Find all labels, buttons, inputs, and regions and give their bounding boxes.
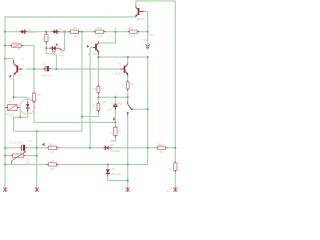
svg-text:1N4148: 1N4148 bbox=[59, 31, 69, 35]
resistor R3 bbox=[46, 142, 58, 154]
wire x=90.1 down bbox=[89, 48, 91, 148]
svg-text:1: 1 bbox=[116, 92, 118, 96]
svg-text:HKA-C2: HKA-C2 bbox=[5, 112, 15, 116]
wire LDR row y=45.6 bbox=[5, 45, 10, 47]
transistor T1 bbox=[5, 58, 25, 78]
junction at (175.3,147.8) bbox=[174, 147, 176, 149]
wire top right y=0.9 bbox=[136, 1, 175, 6]
wire x=147.7 mid bbox=[5, 57, 148, 164]
wire diode bottom x=27.7 bbox=[27, 112, 29, 118]
diode D1 bbox=[20, 30, 28, 34]
wire D2 bottom corner y=180.6 bbox=[108, 176, 128, 181]
svg-text:2: 2 bbox=[31, 189, 33, 193]
svg-text:1N4148: 1N4148 bbox=[111, 149, 121, 153]
svg-text:R4: R4 bbox=[101, 86, 105, 90]
resistor R10 bbox=[94, 26, 106, 38]
svg-text:C1: C1 bbox=[42, 62, 46, 66]
svg-text:1: 1 bbox=[143, 6, 145, 10]
junction at (56.4,69) bbox=[55, 68, 57, 70]
capacitor C2 (polarized, vertical) bbox=[107, 92, 122, 111]
wire LED left feed bbox=[46, 47, 49, 49]
junction at (36.7,155.6) bbox=[36, 155, 38, 157]
wire riser x=90.1 bbox=[90, 47, 93, 49]
svg-text:R1: R1 bbox=[74, 34, 78, 38]
wire supply row y=147.8 bbox=[5, 147, 20, 149]
resistor R2 bbox=[156, 142, 168, 154]
relay lamp circle bbox=[20, 99, 35, 114]
junction at (115.4,97.2) bbox=[114, 96, 116, 98]
svg-text:R6: R6 bbox=[103, 100, 107, 104]
LED red dot bbox=[56, 44, 58, 46]
wire y=57.1 bbox=[98, 56, 147, 58]
svg-text:R8: R8 bbox=[130, 82, 134, 86]
svg-text:1,8kΩ: 1,8kΩ bbox=[95, 26, 102, 30]
resistor R8 (on T2 emitter line) bbox=[121, 80, 134, 90]
junction at (82,31.7) bbox=[81, 31, 83, 33]
svg-text:1k: 1k bbox=[93, 104, 96, 108]
wire switch contact y=109.2 bbox=[133, 108, 148, 110]
wire T4 collector y=42.7 bbox=[98, 32, 115, 43]
wire trimmer row y=155.6 bbox=[5, 155, 11, 157]
wire supply row y=147.8 part4 bbox=[112, 147, 156, 149]
svg-text:10k: 10k bbox=[37, 92, 42, 96]
wire zener column x=46.3 bbox=[46, 41, 56, 53]
svg-text:10k: 10k bbox=[26, 157, 31, 161]
svg-text:4k7: 4k7 bbox=[49, 36, 54, 40]
wire T3 base down x=147.7 bbox=[144, 12, 148, 45]
wire cap to R11 x=115.4 bbox=[114, 107, 116, 127]
junction at (36.7,131.2) bbox=[36, 130, 38, 132]
wire y=97.2 right bbox=[98, 96, 127, 98]
junction at (5,58.6) bbox=[4, 58, 6, 60]
junction at (127.7,180.6) bbox=[127, 180, 129, 182]
svg-text:R9: R9 bbox=[118, 130, 122, 134]
junction at (20.2,117.3) bbox=[19, 116, 21, 118]
svg-text:2,2kΩ: 2,2kΩ bbox=[47, 159, 54, 163]
svg-text:R3: R3 bbox=[50, 150, 54, 154]
svg-text:1k: 1k bbox=[169, 167, 172, 171]
wire bus y=31.7 bbox=[5, 31, 148, 33]
wire freewheel diode column x=27.7 bbox=[27, 97, 29, 101]
junction at (34,69) bbox=[33, 68, 35, 70]
wire R8 to switch x=127.7 bbox=[127, 89, 129, 101]
wire relay pin stub bbox=[13, 97, 15, 100]
junction at (147.7,147.8) bbox=[147, 147, 149, 149]
wire R5 down to corner y=122.4 bbox=[34, 101, 115, 122]
svg-text:R2: R2 bbox=[160, 150, 164, 154]
red mark next to cap line bbox=[113, 118, 115, 121]
svg-text:K1: K1 bbox=[10, 100, 14, 104]
resistor R12 (on right rail) bbox=[169, 161, 177, 172]
diode D4 (pointing left, on supply row) bbox=[103, 143, 120, 153]
junction at (5,164.5) bbox=[4, 163, 6, 165]
junction at (36.7,147.8) bbox=[36, 147, 38, 149]
svg-text:1,2kΩ: 1,2kΩ bbox=[126, 26, 133, 30]
svg-text:R10: R10 bbox=[98, 34, 103, 38]
svg-text:R6: R6 bbox=[60, 49, 64, 53]
wire LDR to corner x=34 bbox=[23, 46, 34, 94]
junction at (82,116.6) bbox=[81, 116, 83, 118]
junction at (13.6,97.2) bbox=[13, 96, 15, 98]
capacitor C1 (polarized, horizontal) bbox=[41, 62, 53, 77]
wire trimmer right y=155.6 bbox=[25, 155, 36, 157]
junction at (115.4,122.4) bbox=[114, 121, 116, 123]
wire T2 emitter x=127.7 bbox=[127, 76, 129, 82]
svg-text:BD139: BD139 bbox=[137, 17, 145, 21]
supply arrow (red) at left rail bbox=[9, 75, 12, 78]
junction at (98.4,97.2) bbox=[97, 96, 99, 98]
wire switch to bottom x=127.7 bbox=[127, 115, 129, 188]
svg-text:T1: T1 bbox=[21, 58, 25, 62]
svg-text:BC 547: BC 547 bbox=[14, 73, 23, 77]
red net arrow near (42,144) bbox=[42, 143, 45, 146]
resistor R11v (below cap) bbox=[110, 126, 122, 137]
junction at (46.3,31.7) bbox=[45, 31, 47, 33]
wire R4-R6 link x=98.4 bbox=[97, 93, 99, 104]
svg-text:4,7kΩ: 4,7kΩ bbox=[46, 142, 53, 146]
connector pin X2 bbox=[35, 187, 39, 192]
connector pin X4 (right rail bottom) bbox=[173, 187, 177, 192]
junction at (115.4,31.7) bbox=[114, 31, 116, 33]
svg-text:3: 3 bbox=[122, 187, 124, 191]
wire D2 branch bbox=[107, 165, 109, 169]
junction at (147.7,109.2) bbox=[147, 108, 149, 110]
relay coil K1 bbox=[5, 100, 20, 117]
transistor T4 bbox=[88, 41, 99, 56]
resistor R1 bbox=[69, 26, 81, 38]
wire T2 collector x=127.7 bbox=[127, 57, 129, 64]
junction at (147.7,31.7) bbox=[147, 31, 149, 33]
svg-text:10k: 10k bbox=[110, 131, 115, 135]
svg-text:5k6: 5k6 bbox=[60, 53, 65, 57]
resistor R13 (on bottom wire y=164.4) bbox=[46, 159, 58, 171]
wire base bus y=69 right part bbox=[51, 68, 120, 70]
GND supply symbol (red) on x=147.7 bbox=[146, 44, 150, 48]
resistor R5v (right of circle) bbox=[32, 92, 41, 103]
wire relay y=117.3 bbox=[14, 117, 28, 131]
svg-text:1,2kΩ: 1,2kΩ bbox=[70, 26, 77, 30]
wire R6 bottom corner bbox=[82, 111, 98, 117]
svg-text:1N4007: 1N4007 bbox=[28, 31, 38, 35]
junction at (127.7,164.5) bbox=[127, 163, 129, 165]
svg-text:BC 557: BC 557 bbox=[114, 71, 123, 75]
freewheel diode (in circle, pointing down) bbox=[26, 97, 34, 112]
svg-text:4: 4 bbox=[167, 189, 169, 193]
junction at (5,31.7) bbox=[4, 31, 6, 33]
junction at (90.1,147.8) bbox=[89, 147, 91, 149]
junction at (64.6,31.7) bbox=[64, 31, 66, 33]
svg-text:D2: D2 bbox=[112, 167, 116, 171]
svg-text:S1: S1 bbox=[119, 102, 123, 106]
svg-text:T3: T3 bbox=[138, 4, 142, 8]
wire right rail x=175.3 bbox=[174, 1, 176, 188]
wire supply row y=147.8 part2 bbox=[26, 147, 47, 149]
svg-text:1: 1 bbox=[23, 64, 25, 68]
wire relay coil right x=20.2 bbox=[19, 107, 21, 117]
svg-text:1N4148: 1N4148 bbox=[112, 172, 122, 176]
capacitor C3 (polarized, horizontal on supply row) bbox=[9, 141, 27, 151]
svg-text:T4: T4 bbox=[89, 41, 93, 45]
LED (optocoupler style, pointing left) bbox=[50, 46, 62, 53]
switch S1 bbox=[119, 101, 133, 115]
svg-text:1: 1 bbox=[0, 189, 2, 193]
svg-text:LDR: LDR bbox=[12, 40, 17, 44]
svg-text:BC 547: BC 547 bbox=[88, 52, 97, 56]
svg-text:10k: 10k bbox=[93, 87, 98, 91]
wire top rail y=17 bbox=[5, 16, 136, 18]
LDR R5 bbox=[10, 40, 23, 51]
junction at (46.3,48.2) bbox=[45, 47, 47, 49]
wire riser x=82 bbox=[14, 32, 82, 132]
junction at (5,155.6) bbox=[4, 155, 6, 157]
net arrow (red) near x=84.5 bbox=[87, 45, 90, 48]
svg-text:P1: P1 bbox=[26, 161, 30, 165]
svg-text:C2: C2 bbox=[110, 101, 114, 105]
wire base bus y=69 bbox=[25, 68, 43, 70]
connector pin X1 (left rail bottom) bbox=[3, 187, 7, 192]
svg-text:1k: 1k bbox=[121, 83, 124, 87]
svg-text:R7: R7 bbox=[42, 37, 46, 41]
junction at (127.7,57.1) bbox=[127, 56, 129, 58]
wire supply row y=147.8 part5 bbox=[167, 147, 175, 149]
wire T4 emitter x=98.4 bbox=[97, 54, 99, 86]
junction at (147.7,57.1) bbox=[147, 56, 149, 58]
resistor R11 top bbox=[126, 26, 139, 38]
svg-text:12V: 12V bbox=[149, 33, 154, 37]
wire LED right to riser x=64.6 bbox=[62, 32, 65, 51]
transistor T3 bbox=[136, 4, 146, 21]
diode D2 (bus) bbox=[52, 30, 60, 34]
svg-text:25V: 25V bbox=[107, 108, 112, 112]
svg-text:R5: R5 bbox=[17, 47, 21, 51]
svg-text:R13: R13 bbox=[50, 167, 55, 171]
wire LED net down x=56.4 bbox=[55, 55, 57, 69]
junction at (5,147.8) bbox=[4, 147, 6, 149]
junction at (98.4,57.1) bbox=[97, 56, 99, 58]
svg-text:C3 2µF 16V: C3 2µF 16V bbox=[9, 141, 23, 145]
svg-text:10kΩ: 10kΩ bbox=[157, 142, 163, 146]
wire y=97.2 left bbox=[14, 96, 28, 98]
resistor R6v bbox=[93, 100, 107, 112]
wire x=36.7 down bbox=[36, 131, 38, 188]
svg-text:R11: R11 bbox=[130, 34, 135, 38]
junction at (127.7,97.2) bbox=[127, 96, 129, 98]
wire T1 emitter x=13.6 bbox=[13, 74, 15, 97]
connector pin X3 bbox=[126, 187, 130, 192]
wire cap column x=115.4 bbox=[114, 97, 116, 104]
wire R11 bottom stub bbox=[111, 135, 115, 141]
svg-text:12V: 12V bbox=[28, 139, 33, 143]
svg-text:10µF 16V: 10µF 16V bbox=[41, 74, 53, 78]
resistor R4 bbox=[93, 85, 105, 94]
svg-text:B: B bbox=[115, 26, 117, 30]
wire left rail x=5 bbox=[4, 16, 6, 187]
junction at (5,45.6) bbox=[4, 45, 6, 47]
trimmer P1 bbox=[11, 151, 30, 165]
transistor T2 bbox=[114, 62, 128, 76]
resistor R7 (vertical under bus) bbox=[42, 32, 54, 44]
junction at (107.8,164.5) bbox=[107, 163, 109, 165]
svg-text:D4: D4 bbox=[111, 143, 115, 147]
wire supply row y=147.8 part3 bbox=[58, 147, 103, 149]
diode D2v (pointing down) bbox=[106, 167, 122, 176]
svg-text:T2: T2 bbox=[118, 62, 122, 66]
svg-text:GND: GND bbox=[143, 38, 149, 42]
